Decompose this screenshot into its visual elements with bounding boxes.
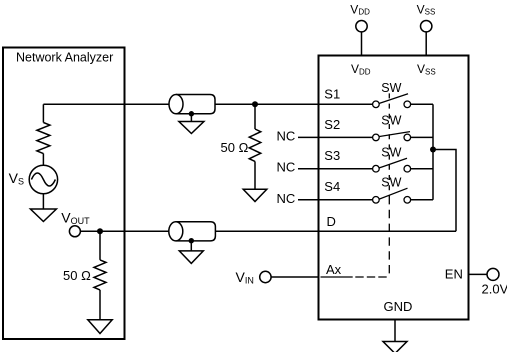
svg-text:S3: S3 — [324, 148, 340, 163]
svg-text:SW: SW — [381, 81, 401, 95]
svg-text:GND: GND — [384, 299, 413, 314]
svg-text:S2: S2 — [324, 117, 340, 132]
svg-text:NC: NC — [277, 129, 296, 144]
svg-text:S4: S4 — [324, 179, 340, 194]
svg-text:50 Ω: 50 Ω — [63, 268, 91, 283]
svg-text:Network Analyzer: Network Analyzer — [16, 50, 113, 64]
svg-text:D: D — [327, 214, 336, 229]
svg-text:SW: SW — [381, 114, 401, 128]
svg-text:SW: SW — [381, 176, 401, 190]
svg-text:NC: NC — [277, 191, 296, 206]
svg-text:S1: S1 — [324, 87, 340, 102]
svg-text:EN: EN — [445, 267, 463, 282]
svg-text:Ax: Ax — [326, 262, 342, 277]
svg-text:NC: NC — [277, 160, 296, 175]
svg-text:2.0V: 2.0V — [482, 282, 507, 297]
svg-text:SW: SW — [381, 146, 401, 160]
svg-text:50 Ω: 50 Ω — [221, 140, 249, 155]
